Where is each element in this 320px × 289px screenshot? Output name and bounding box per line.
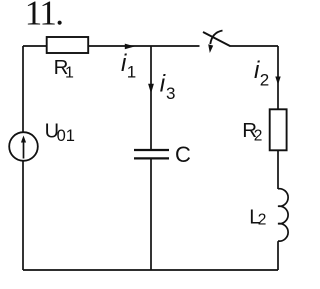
svg-text:01: 01 [57,127,75,145]
resistor R1 [47,37,88,53]
wire R1 to switch left contact [88,45,199,47]
svg-text:1: 1 [65,65,74,82]
voltage source U01 [9,132,38,161]
svg-text:i: i [160,71,166,98]
svg-text:11.: 11. [25,0,63,33]
wire L2 to bottom wire [277,241,279,270]
wire switch right contact to top-right corner [230,45,279,47]
current arrow i2 [275,77,280,85]
wire middle branch lower (capacitor to bottom wire) [150,158,152,270]
svg-text:1: 1 [127,62,136,81]
wire left branch lower (U01 bottom to bottom wire) [22,161,24,270]
svg-text:3: 3 [166,84,175,103]
capacitor C [134,150,169,158]
wire top-left horizontal (source to R1) [23,45,47,47]
svg-text:2: 2 [258,212,267,229]
svg-text:2: 2 [254,128,263,145]
voltage source arrow [23,142,25,159]
current arrow i1 [125,44,135,50]
wire R2 to L2 [277,150,279,189]
switch S [203,31,230,47]
svg-text:C: C [175,142,191,167]
resistor R2 [270,109,287,150]
inductor L2 [278,189,288,241]
wire right branch upper (corner to R2) [277,46,279,109]
wire left branch upper (corner to U01 top) [22,46,24,132]
current arrow i3 [148,84,154,94]
wire middle branch upper (junction to capacitor) [150,46,152,150]
switch arrowhead [208,44,213,53]
wire bottom horizontal [23,269,278,271]
svg-text:2: 2 [260,71,269,90]
